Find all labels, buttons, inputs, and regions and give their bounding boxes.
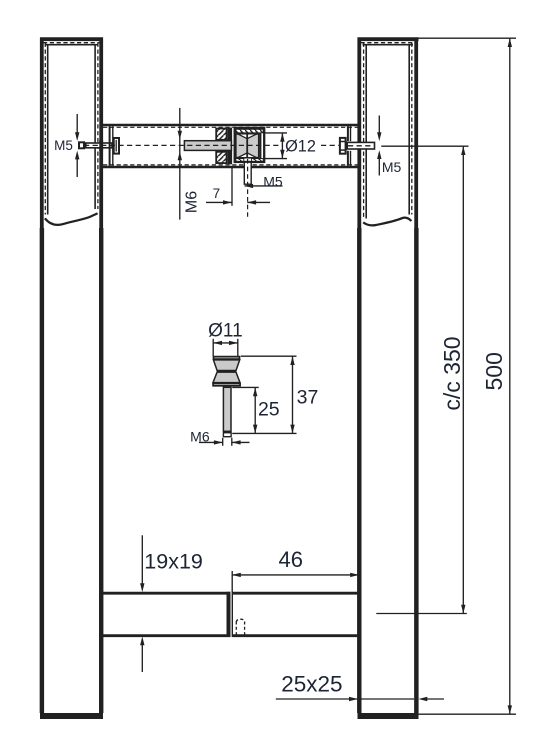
dimension 25 xyxy=(232,387,259,433)
dimension 46 xyxy=(231,571,233,592)
svg-text:25: 25 xyxy=(258,398,280,420)
lower tube wall thickening xyxy=(42,228,417,713)
spool body (section, gray) xyxy=(236,134,259,158)
bottom bar 19x19 right segment xyxy=(232,593,357,636)
dimension M5 right xyxy=(378,116,380,176)
spool center line xyxy=(246,134,248,158)
right tube inner thin wall line xyxy=(363,45,414,219)
detail part: threaded stem M6 xyxy=(223,387,231,431)
dimension 500 xyxy=(418,37,516,39)
dimension 25x25 xyxy=(276,698,358,700)
M5 stud below spool xyxy=(244,162,251,184)
dimension 7 xyxy=(231,168,233,206)
dimension M5 (stud leader) xyxy=(245,185,283,187)
hidden hole dashed detail on bottom bar xyxy=(236,619,244,635)
M6 threaded rod of spool xyxy=(184,141,231,151)
right vertical tube 25x25: outer walls xyxy=(358,38,419,714)
svg-text:M5: M5 xyxy=(263,173,283,189)
left vertical tube 25x25: outer walls xyxy=(40,38,103,714)
horizontal top tube 19x19 section walls xyxy=(103,125,358,167)
left tube inner thin wall line xyxy=(45,45,98,215)
svg-text:Ø12: Ø12 xyxy=(285,138,316,156)
detail part: lower cone xyxy=(213,372,240,383)
svg-text:37: 37 xyxy=(297,387,319,409)
dimension M5 left xyxy=(76,114,78,177)
left tube wall over bolt xyxy=(99,140,103,151)
detail part: stem end chamfer xyxy=(223,433,231,437)
connector frame top hatched strip xyxy=(236,129,263,133)
left tube bottom cap xyxy=(40,713,103,719)
detail part: spool top disc xyxy=(214,357,240,360)
connector frame (insert sleeve section) xyxy=(235,128,265,162)
left tube break wavy line xyxy=(45,213,98,224)
svg-text:46: 46 xyxy=(279,547,303,572)
svg-text:M6: M6 xyxy=(190,429,210,445)
horizontal tube right end cap lines xyxy=(347,126,349,141)
horizontal tube left end cap lines xyxy=(109,126,111,166)
svg-text:c/c 350: c/c 350 xyxy=(439,336,465,410)
dimension Ø12 xyxy=(265,133,288,159)
left fixing bolt M5 head xyxy=(79,142,84,148)
svg-text:25x25: 25x25 xyxy=(281,671,342,696)
connector frame bottom hatched strips xyxy=(236,159,244,163)
right fixing bolt M5 shaft xyxy=(347,142,374,149)
svg-text:19x19: 19x19 xyxy=(144,549,203,573)
svg-text:7: 7 xyxy=(213,186,221,201)
detail part: upper cone xyxy=(213,360,239,371)
detail part: bottom disc xyxy=(213,383,240,385)
spool washer bar xyxy=(228,128,233,165)
spool bottom white notch xyxy=(238,153,257,158)
main dashed centerline xyxy=(84,144,374,146)
dimension c/c 350 xyxy=(381,145,468,147)
left fixing bolt M5 shaft xyxy=(86,143,112,148)
right tube break wavy line xyxy=(363,218,411,226)
detail part: waist line xyxy=(217,370,237,372)
right tube inner dashed wall line xyxy=(361,43,416,219)
svg-text:M5: M5 xyxy=(54,138,73,153)
bottom bar left segment end bar xyxy=(227,592,231,637)
dimension 37 xyxy=(232,356,296,433)
spool top white notch xyxy=(238,134,257,139)
bottom bar 19x19 left segment xyxy=(103,593,231,636)
dimension M6 (stem) xyxy=(199,438,250,446)
connector sleeve hatched block bottom xyxy=(216,152,226,163)
svg-text:Ø11: Ø11 xyxy=(208,320,243,341)
svg-text:500: 500 xyxy=(481,352,507,390)
right tube bottom cap xyxy=(358,713,419,719)
svg-text:M6: M6 xyxy=(184,191,201,213)
stud dashed centerline xyxy=(247,159,249,220)
spool right washer line xyxy=(260,133,262,159)
dimension 19x19 xyxy=(141,535,143,672)
left threaded insert block xyxy=(114,138,119,154)
right fixing bolt head xyxy=(340,138,346,154)
svg-text:M5: M5 xyxy=(382,159,402,175)
left tube inner dashed wall line xyxy=(43,43,100,215)
dimension M6 (top rod) xyxy=(179,108,181,220)
connector sleeve hatched block top xyxy=(216,129,226,140)
